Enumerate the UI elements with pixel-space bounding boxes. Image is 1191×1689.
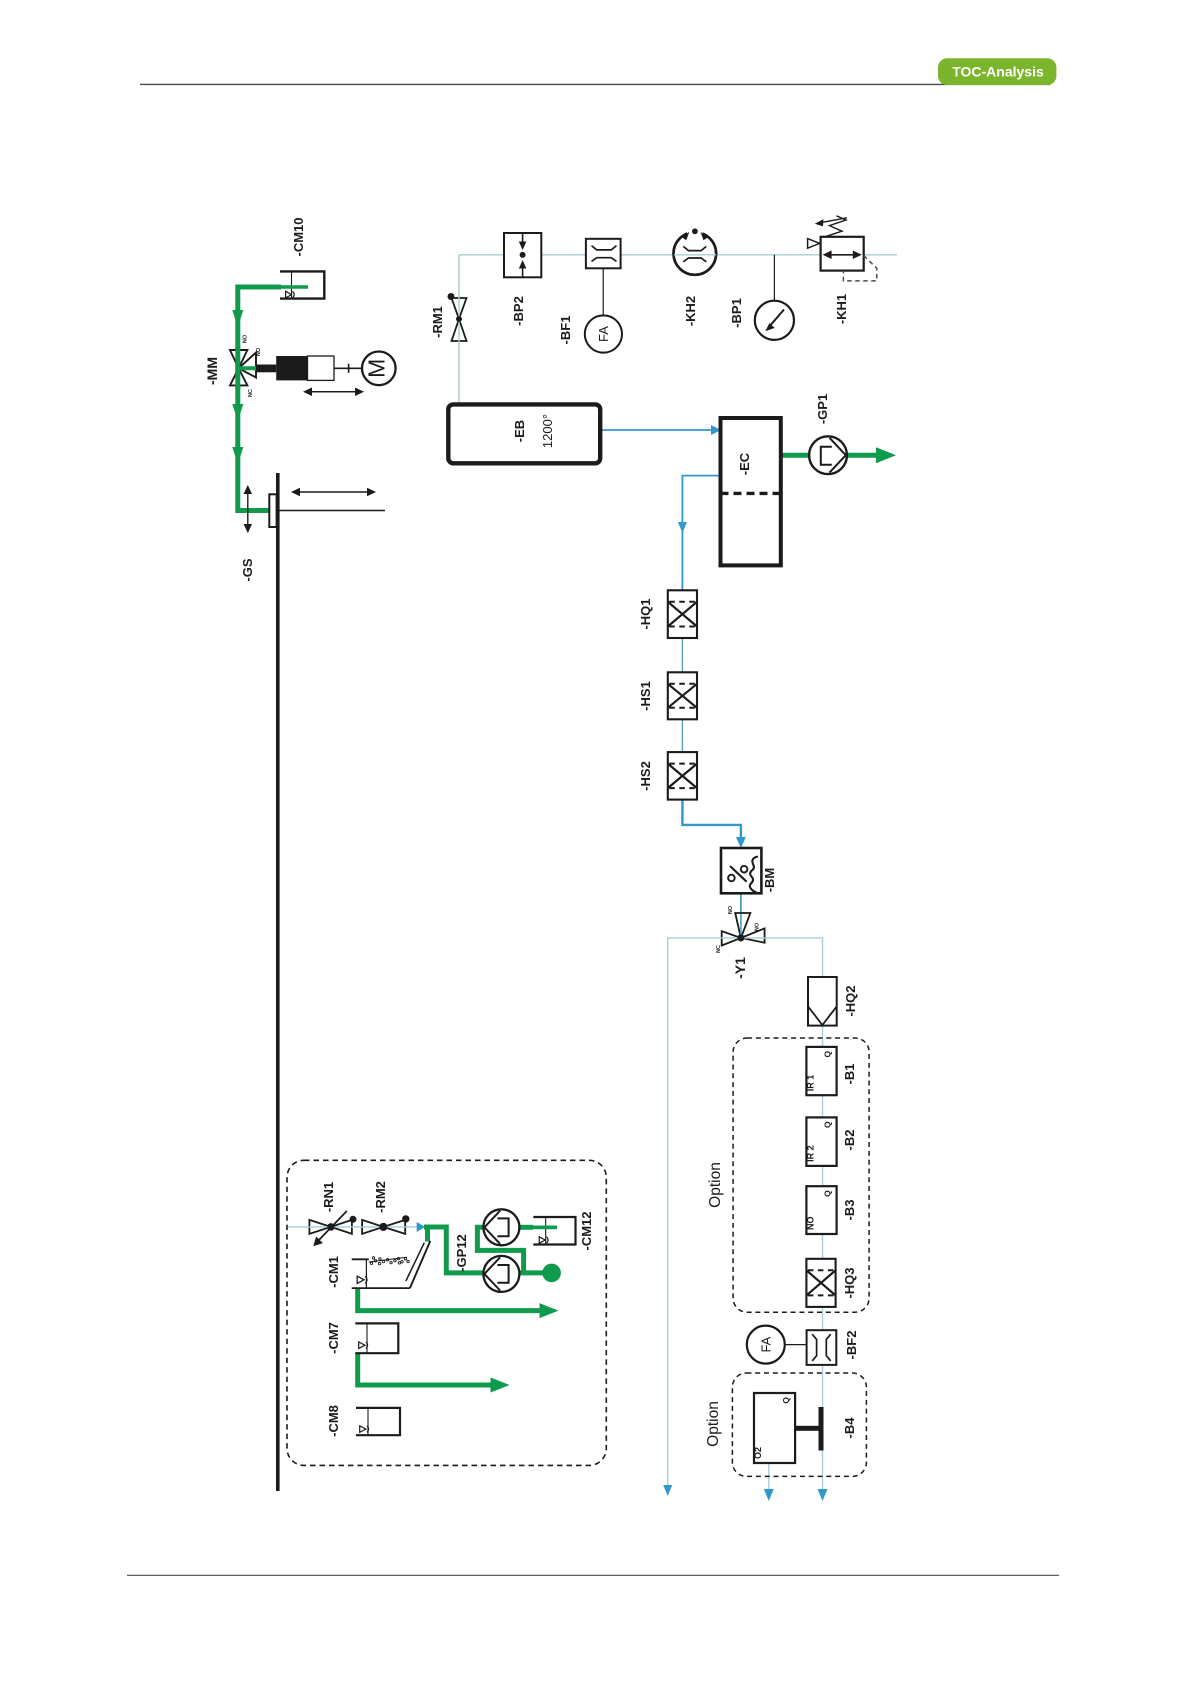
wire: cooler EC to pump GP1 — [781, 453, 811, 458]
svg-text:-CM8: -CM8 — [326, 1405, 341, 1437]
probe -GS flange — [269, 494, 276, 527]
svg-text:Option: Option — [707, 1162, 724, 1208]
analyzer -B3 (NO) — [805, 1186, 836, 1234]
pump -GP1 — [809, 436, 847, 474]
svg-text:-EC: -EC — [737, 452, 752, 475]
wire: funnel CM1 drain with arrow — [358, 1288, 540, 1311]
svg-text:-B2: -B2 — [842, 1130, 857, 1151]
svg-text:NC: NC — [248, 389, 254, 397]
wire: green tube into CM12 — [533, 1226, 557, 1230]
valve -Y1 (3-way) — [722, 913, 765, 946]
wire: manifold drop to furnace EB through valve RM1 — [458, 255, 460, 404]
wire: green stub valve MM to actuator — [238, 366, 257, 370]
svg-text:-BP2: -BP2 — [511, 296, 526, 326]
wire: green sample line from CM10 container — [238, 287, 281, 511]
svg-text:-GS: -GS — [240, 558, 255, 581]
wire: BF2 down through O2 probe to bottom outlet — [822, 1365, 824, 1490]
svg-text:-KH2: -KH2 — [683, 296, 698, 326]
svg-text:-CM1: -CM1 — [326, 1256, 341, 1288]
flow arrows on green sample line — [232, 310, 243, 327]
svg-text:-BM: -BM — [762, 868, 777, 893]
analyzer -B4 (O2) — [753, 1393, 795, 1463]
wire: RN1 to RM2 — [351, 1226, 363, 1228]
check valve -BP2 — [504, 233, 541, 277]
svg-text:NO: NO — [256, 347, 262, 356]
svg-text:NO: NO — [805, 1217, 815, 1231]
O2 probe tee — [795, 1407, 823, 1451]
wire: B4 drain to bottom outlet — [768, 1463, 770, 1490]
svg-text:-HS2: -HS2 — [638, 761, 653, 791]
svg-text:-EB: -EB — [512, 420, 527, 442]
wire: green overlay through valve MM — [235, 346, 240, 390]
drain point — [542, 1264, 561, 1283]
svg-text:-B1: -B1 — [842, 1064, 857, 1085]
wire: B3 to filter HQ3 — [822, 1234, 824, 1259]
svg-text:FA: FA — [596, 326, 611, 342]
header rule — [140, 83, 1050, 85]
wire: RM2 to sample arrow — [405, 1226, 418, 1228]
indicator FA of BF2 — [747, 1326, 807, 1364]
svg-text:M: M — [364, 359, 390, 378]
wire: green tube into CM10 — [278, 285, 308, 289]
svg-text:-HS1: -HS1 — [638, 681, 653, 711]
probe -GS tube — [277, 510, 385, 512]
compressor -KH2 — [674, 228, 717, 274]
wire: pale overlay through valve Y1 — [720, 937, 766, 939]
pressure gauge -BP1 — [755, 255, 794, 340]
wire: container CM7 drain with arrow — [358, 1353, 491, 1385]
svg-text:-BP1: -BP1 — [729, 298, 744, 328]
svg-text:FA: FA — [759, 1336, 774, 1352]
wire: branch lower line to upper GP12 pump inlet — [477, 1227, 523, 1273]
wire: pale overlay through valve RM2 — [361, 1226, 406, 1228]
footer rule — [127, 1574, 1059, 1576]
wire: BM to valve Y1 — [740, 894, 742, 914]
header badge TOC-Analysis — [938, 58, 1056, 85]
svg-text:-RN1: -RN1 — [321, 1182, 336, 1212]
wire: pale overlay through valve RM1 — [458, 296, 460, 343]
svg-text:NC: NC — [716, 945, 722, 953]
outlet arrow from sample gas line — [818, 1489, 828, 1501]
svg-text:-BF1: -BF1 — [558, 316, 573, 345]
wire: carrier-gas manifold horizontal — [459, 254, 897, 256]
wire: feed to valve RN1 — [288, 1226, 311, 1228]
svg-text:Q: Q — [823, 1121, 833, 1128]
container -CM12 — [533, 1217, 575, 1245]
wire: B1 to B2 — [822, 1095, 824, 1117]
wire: lower GP12 pump to drain point — [519, 1270, 545, 1275]
dashed option box 2 — [732, 1373, 866, 1476]
filter -HS2 — [668, 752, 697, 800]
wire: filter chain HS1-HS2 — [681, 719, 683, 752]
container -CM8 — [356, 1408, 400, 1435]
svg-text:Option: Option — [705, 1401, 722, 1447]
pumps -GP12 — [483, 1209, 519, 1245]
wire: HS2 elbow to moisture analyzer BM with arrow — [682, 800, 741, 838]
container -CM7 — [355, 1323, 398, 1353]
moisture analyzer -BM — [721, 848, 761, 893]
svg-text:TOC-Analysis: TOC-Analysis — [952, 64, 1044, 80]
actuator of valve MM (piston) — [256, 356, 362, 380]
wire: cooler EC condensate line down to HQ1 with arrow — [682, 476, 720, 591]
svg-text:-HQ3: -HQ3 — [842, 1267, 857, 1298]
svg-text:-MM: -MM — [204, 357, 220, 385]
motor M of valve MM — [362, 352, 396, 386]
stroke arrow under actuator — [303, 388, 364, 397]
filter -HQ1 — [668, 590, 697, 638]
wire: HQ3 to flow meter BF2 — [822, 1307, 824, 1330]
wire: HQ2 to analyzer B1 — [822, 1026, 824, 1047]
svg-text:Q: Q — [781, 1397, 791, 1404]
cooler -EC — [721, 418, 781, 565]
funnel -CM1 — [352, 1241, 431, 1288]
wire: sample line to lower pump GP12 — [424, 1227, 484, 1273]
wire: furnace EB outlet to cooler EC with arrow — [600, 429, 712, 431]
svg-text:-RM1: -RM1 — [430, 306, 445, 338]
valve -MM (3-way) — [230, 350, 256, 385]
valve -RM2 — [362, 1215, 409, 1234]
svg-text:-KH1: -KH1 — [834, 294, 849, 324]
analyzer -B2 (IR 2) — [805, 1117, 836, 1166]
flow meter -BF2 — [807, 1330, 837, 1365]
wire: overflow stub into funnel CM1 — [425, 1227, 430, 1242]
filter -HS1 — [668, 672, 697, 719]
svg-text:IR 2: IR 2 — [805, 1145, 815, 1162]
svg-text:NO: NO — [755, 922, 761, 931]
wire: B2 to B3 — [822, 1166, 824, 1186]
wire: Y1 right branch to filter HQ2 — [765, 938, 823, 977]
filter -HQ2 — [808, 977, 837, 1026]
flow meter -BF1 — [586, 239, 621, 316]
svg-text:-HQ2: -HQ2 — [843, 985, 858, 1016]
svg-text:-GP12: -GP12 — [454, 1234, 469, 1272]
svg-text:-CM10: -CM10 — [291, 217, 306, 256]
svg-text:1200°: 1200° — [540, 414, 555, 448]
svg-text:NO: NO — [728, 905, 734, 914]
filter -HQ3 — [806, 1259, 835, 1307]
furnace -EB 1200deg — [448, 404, 600, 463]
svg-text:-HQ1: -HQ1 — [638, 598, 653, 629]
indicator FA of BF1 — [585, 315, 622, 352]
dashed option box (sample handling) — [287, 1160, 606, 1465]
svg-text:IR 1: IR 1 — [805, 1075, 815, 1092]
svg-text:-CM7: -CM7 — [326, 1322, 341, 1354]
svg-text:-GP1: -GP1 — [815, 394, 830, 424]
stack wall — [276, 473, 280, 1491]
svg-text:-BF2: -BF2 — [844, 1331, 859, 1360]
analyzer -B1 (IR 1) — [805, 1047, 836, 1095]
svg-text:-Y1: -Y1 — [732, 957, 748, 979]
svg-text:NO: NO — [243, 334, 249, 343]
probe travel arrow vertical — [244, 485, 253, 533]
svg-text:O2: O2 — [753, 1447, 763, 1459]
needle valve -RN1 — [309, 1211, 356, 1246]
svg-text:-B3: -B3 — [842, 1200, 857, 1221]
wire: pump GP1 outlet arrow — [845, 453, 876, 458]
svg-text:-B4: -B4 — [842, 1417, 857, 1439]
sample inlet arrow after RM2 — [417, 1222, 426, 1232]
outlet arrow bottom left (Y1 vent) — [663, 1485, 672, 1496]
wire: upper GP12 pump to container CM12 — [519, 1225, 533, 1230]
container -CM10 — [280, 271, 324, 298]
svg-text:-RM2: -RM2 — [373, 1181, 388, 1213]
dashed option box 1 — [733, 1038, 869, 1312]
outlet arrow from B4 drain — [764, 1489, 774, 1501]
svg-text:-CM12: -CM12 — [579, 1211, 594, 1250]
pressure regulator -KH1 — [808, 216, 877, 281]
wire: pale overlay through valve RN1 — [308, 1226, 353, 1228]
svg-text:Q: Q — [823, 1190, 833, 1197]
valve -RM1 — [448, 293, 467, 341]
wire: Y1 left branch long vertical to bottom outlet — [668, 938, 722, 1486]
probe travel arrow horizontal — [291, 488, 376, 497]
svg-text:Q: Q — [823, 1051, 833, 1058]
wire: filter chain HQ1-HS1 — [681, 638, 683, 672]
